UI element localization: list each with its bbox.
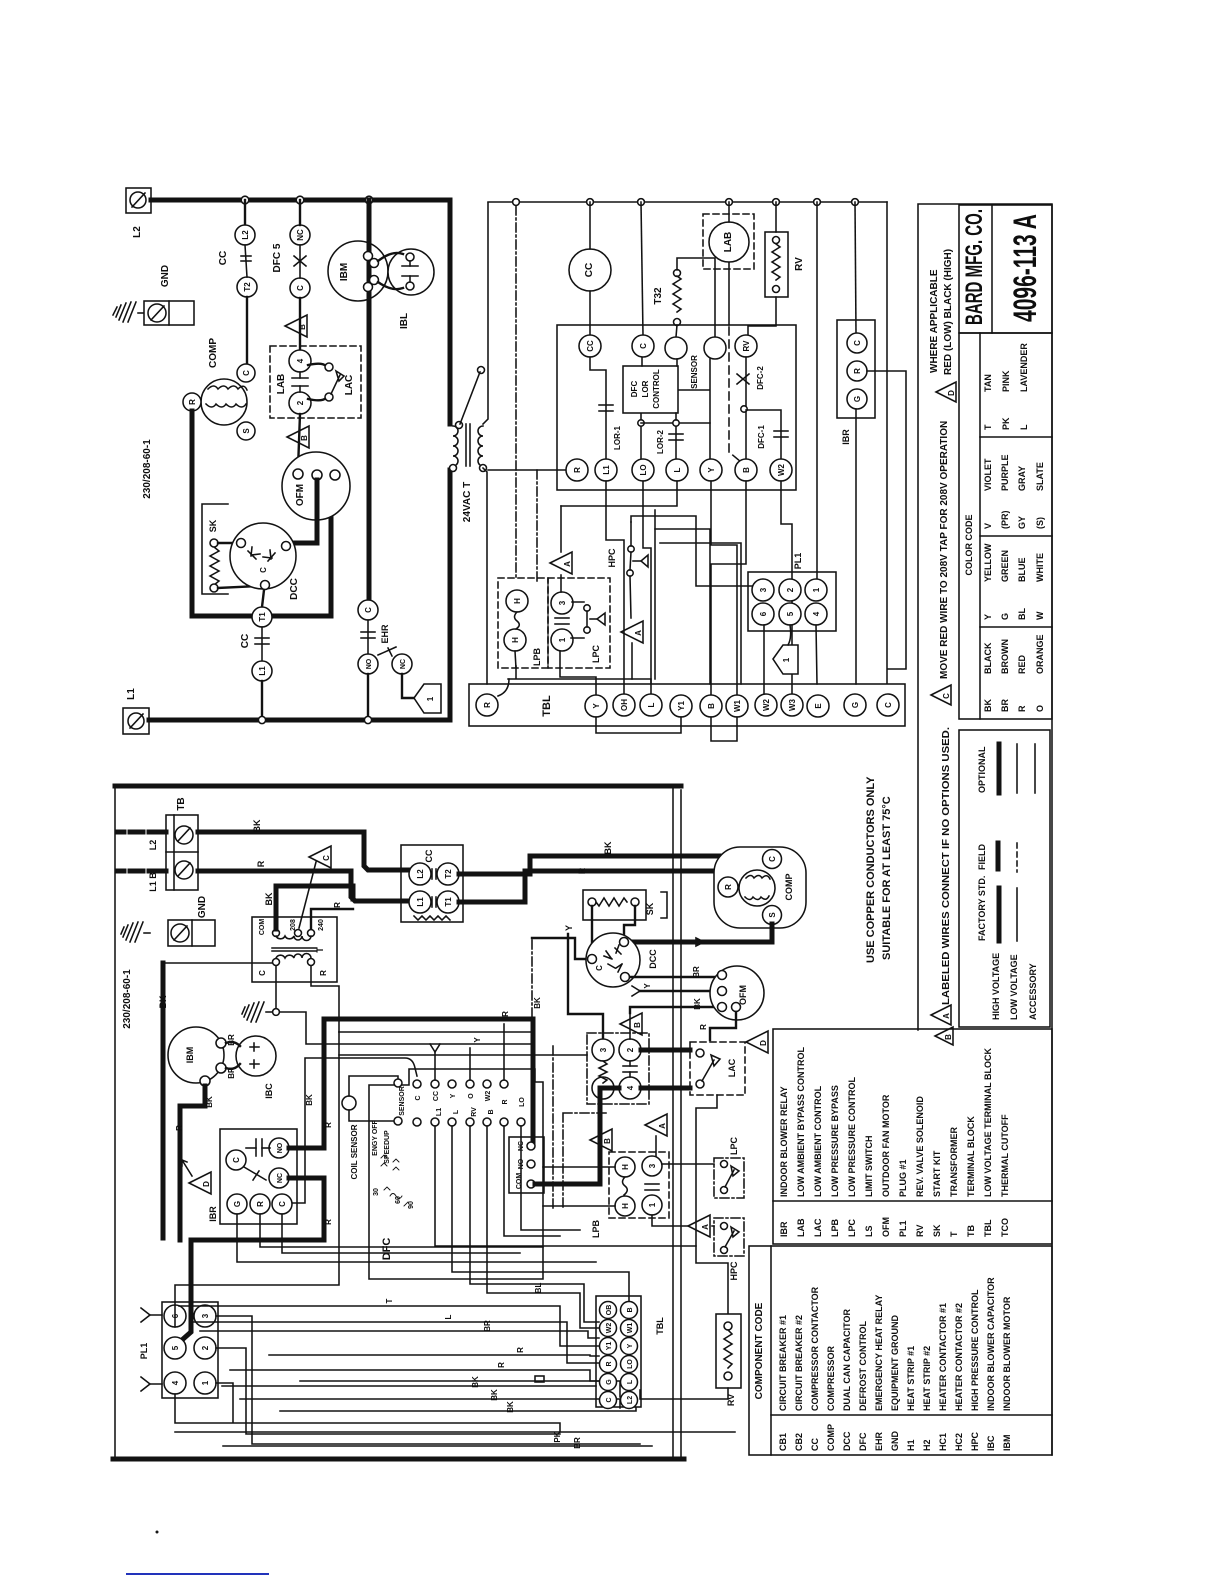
svg-text:T1: T1 — [444, 897, 453, 907]
svg-text:EQUIPMENT GROUND: EQUIPMENT GROUND — [890, 1314, 900, 1411]
wire OFM2 to DCC — [291, 480, 317, 543]
wire main bus vertical thick — [672, 786, 674, 1459]
wire left bus BK — [161, 963, 166, 1238]
resistor T32 — [673, 270, 681, 326]
svg-text:LOW VOLTAGE TERMINAL BLOCK: LOW VOLTAGE TERMINAL BLOCK — [983, 1048, 993, 1197]
sensor coil circle — [342, 1096, 356, 1110]
svg-text:A: A — [563, 561, 572, 567]
svg-text:A: A — [701, 1224, 710, 1230]
wire LPC3 up — [560, 575, 562, 592]
wire SK to DCC H — [218, 542, 237, 544]
svg-text:LAB: LAB — [723, 232, 734, 253]
svg-text:COM: COM — [259, 919, 266, 936]
resistor SK2 — [588, 898, 639, 906]
table COMPONENT CODE group B box — [773, 1029, 1052, 1244]
svg-text:IBM: IBM — [1002, 1435, 1012, 1452]
svg-text:C: C — [232, 1157, 241, 1163]
svg-text:LAC: LAC — [727, 1058, 737, 1077]
wire Y dash connector — [430, 1044, 440, 1080]
wire W2 board to W3 — [781, 481, 792, 694]
wire sensor2 to control box — [679, 359, 710, 459]
wire bundle PK — [175, 1431, 735, 1433]
wire DFC5 contact with switch — [294, 245, 306, 278]
wire L2 bus — [151, 200, 450, 424]
wire NC up — [299, 200, 301, 225]
svg-text:HEATER CONTACTOR #2: HEATER CONTACTOR #2 — [954, 1303, 964, 1411]
svg-text:LOW AMBIENT CONTROL: LOW AMBIENT CONTROL — [813, 1085, 823, 1197]
svg-text:R: R — [1017, 705, 1027, 712]
table divider A codes — [771, 1414, 1052, 1416]
svg-text:Y: Y — [627, 1343, 634, 1348]
svg-text:GY: GY — [1017, 516, 1027, 529]
svg-text:A: A — [658, 1123, 667, 1129]
wire Y from DCC C — [532, 938, 588, 959]
svg-text:OFM: OFM — [295, 484, 306, 506]
dashed box LAB coil — [703, 214, 754, 269]
svg-text:4: 4 — [171, 1380, 180, 1385]
wire R tap — [311, 909, 353, 929]
svg-text:208: 208 — [290, 919, 297, 931]
svg-text:BK: BK — [490, 1389, 499, 1401]
wire ODT4 to LAC — [641, 1086, 690, 1091]
svg-text:IBM: IBM — [339, 263, 350, 281]
wire field L2 dashes — [118, 830, 166, 835]
terminal RV board — [735, 335, 757, 357]
svg-text:IBR: IBR — [779, 1221, 789, 1237]
svg-text:OFM: OFM — [881, 1217, 891, 1237]
wire bus to PL1-1 — [816, 202, 818, 579]
wire bus right corner to TBL C — [886, 202, 888, 683]
svg-text:COMP: COMP — [784, 874, 794, 901]
svg-text:LOW PRESSURE BYPASS: LOW PRESSURE BYPASS — [830, 1085, 840, 1197]
legend sample lines — [997, 888, 1002, 941]
svg-text:LABELED WIRES CONNECT IF NO OP: LABELED WIRES CONNECT IF NO OPTIONS USED… — [941, 727, 952, 1005]
warning triangle A note — [931, 1005, 951, 1025]
svg-text:L: L — [627, 1379, 634, 1384]
svg-text:HEAT STRIP #1: HEAT STRIP #1 — [906, 1346, 916, 1411]
svg-text:COIL SENSOR: COIL SENSOR — [350, 1124, 359, 1179]
svg-text:L1: L1 — [602, 465, 611, 475]
wire PL1-4 to E — [816, 625, 817, 684]
wire DCC to T1 — [262, 590, 264, 607]
wire bottom bus — [113, 1457, 684, 1462]
pen mark blue line — [126, 1573, 269, 1575]
terminal C board — [632, 335, 654, 357]
terminal NO dfc — [527, 1160, 535, 1168]
svg-text:24VAC T: 24VAC T — [462, 482, 473, 522]
svg-text:R: R — [333, 902, 342, 908]
dashed box LPB2 — [609, 1152, 669, 1218]
wire SK2 stubs — [592, 906, 635, 954]
svg-text:DCC: DCC — [842, 1431, 852, 1451]
svg-text:B: B — [300, 435, 309, 441]
ground symbol3 — [242, 1002, 272, 1022]
svg-text:SK: SK — [645, 902, 655, 915]
svg-text:TERMINAL BLOCK: TERMINAL BLOCK — [966, 1116, 976, 1197]
node junction3 — [365, 196, 373, 204]
wire staircase HPC to PL1-3 — [631, 516, 753, 586]
warning triangle B note — [935, 1027, 953, 1045]
box LPC2 dash-dot — [714, 1158, 744, 1198]
wire bundle T — [179, 1306, 599, 1346]
svg-text:GRAY: GRAY — [1017, 466, 1027, 491]
wire Y path from S branch — [568, 934, 603, 1039]
node dot2 — [741, 406, 747, 412]
pins speedup — [381, 1155, 399, 1170]
svg-text:ENGY OFF: ENGY OFF — [372, 1119, 379, 1155]
capacitor symbol LAB — [292, 372, 308, 392]
svg-text:R: R — [516, 1347, 525, 1353]
svg-text:R: R — [501, 1011, 510, 1017]
arrow Y lower — [141, 1377, 162, 1391]
svg-text:R: R — [724, 884, 733, 890]
wire SK to DCC C — [218, 586, 258, 588]
svg-text:H: H — [621, 1203, 630, 1209]
svg-text:R: R — [853, 368, 862, 374]
svg-text:LOR-2: LOR-2 — [656, 429, 665, 454]
svg-text:CC: CC — [584, 263, 595, 277]
svg-text:L: L — [647, 702, 656, 707]
fuse L1 — [123, 708, 149, 734]
svg-text:G: G — [851, 702, 860, 708]
svg-text:RV: RV — [742, 340, 751, 352]
terminal COMP S — [237, 422, 255, 440]
svg-text:DCC: DCC — [648, 949, 658, 969]
rows group A codes and descriptions — [778, 1277, 1012, 1451]
svg-text:C: C — [242, 370, 251, 376]
contact LPB2 H2 — [615, 1196, 635, 1216]
wire bus to C board — [641, 202, 643, 335]
terminal Y board — [700, 459, 722, 481]
svg-text:GND: GND — [197, 896, 208, 918]
svg-text:(PR): (PR) — [1000, 511, 1010, 530]
contact CCb T1 — [437, 891, 459, 913]
svg-text:LOR: LOR — [641, 380, 650, 397]
svg-text:H: H — [511, 637, 520, 643]
svg-text:COLOR CODE: COLOR CODE — [964, 514, 974, 575]
wire bundle L — [191, 1322, 599, 1363]
wire IBR2 NO to DFC NC — [289, 1019, 533, 1148]
svg-text:TCO: TCO — [1000, 1218, 1010, 1237]
wire L board to LPC — [561, 481, 677, 506]
svg-text:A: A — [634, 630, 643, 636]
capacitor symbol LPC — [555, 618, 569, 624]
svg-text:5: 5 — [171, 1345, 180, 1350]
svg-text:2: 2 — [626, 1047, 635, 1052]
svg-text:EHR: EHR — [380, 624, 390, 644]
pin PL2-6 — [164, 1305, 186, 1327]
rows group B codes and descriptions — [779, 1047, 1010, 1237]
wire BK to board C — [293, 1058, 417, 1203]
terminal R board — [566, 459, 588, 481]
pin PL2-3 — [194, 1305, 216, 1327]
wire bus to IBM — [367, 200, 372, 241]
svg-text:1: 1 — [426, 696, 435, 701]
wire bundle BR — [200, 1331, 599, 1338]
dashed box LPB — [498, 578, 548, 668]
svg-text:B: B — [603, 1138, 612, 1144]
svg-text:T: T — [949, 1231, 959, 1237]
svg-text:2: 2 — [786, 587, 795, 592]
svg-text:1: 1 — [558, 637, 567, 642]
svg-text:RED: RED — [1017, 654, 1027, 674]
svg-text:GND: GND — [890, 1431, 900, 1452]
svg-text:YELLOW: YELLOW — [983, 543, 993, 582]
wire field L1 dashes — [118, 869, 166, 874]
svg-text:CC: CC — [424, 849, 434, 862]
svg-text:OFM: OFM — [738, 985, 748, 1005]
svg-text:LOW AMBIENT BYPASS CONTROL: LOW AMBIENT BYPASS CONTROL — [796, 1047, 806, 1197]
svg-text:ORANGE: ORANGE — [1035, 634, 1045, 674]
wire sensor1 to control box — [676, 359, 678, 366]
capacitor DCC2 — [586, 933, 640, 987]
wire RV to board — [748, 297, 776, 335]
svg-text:Y1: Y1 — [606, 1342, 613, 1351]
terminal sensor2 board — [704, 337, 726, 359]
svg-text:R: R — [502, 1099, 509, 1104]
svg-text:B: B — [488, 1109, 495, 1114]
svg-text:PK: PK — [1001, 417, 1011, 430]
warning triangle C note — [931, 685, 951, 705]
wire RV2 bottom — [640, 1388, 728, 1399]
svg-text:3: 3 — [599, 1047, 608, 1052]
svg-text:R: R — [256, 860, 266, 867]
contact ODT 1 — [592, 1077, 614, 1099]
contact IBR2 NO — [269, 1138, 289, 1158]
wire L1 bus bottom — [149, 470, 450, 720]
svg-text:PURPLE: PURPLE — [1000, 454, 1010, 491]
wire LAC to RV chain — [696, 1095, 728, 1314]
svg-text:LOR-1: LOR-1 — [613, 425, 622, 450]
svg-text:R: R — [497, 1362, 506, 1368]
wire RV to B with contact DFC-2 — [737, 357, 749, 459]
wire IBM to EHR — [367, 302, 372, 600]
wire BK from TB — [198, 832, 408, 870]
warning triangle A4 — [688, 1215, 710, 1237]
svg-text:L2: L2 — [627, 1396, 634, 1404]
svg-text:BK: BK — [471, 1376, 480, 1388]
svg-text:COM: COM — [516, 1173, 523, 1190]
svg-text:LPB: LPB — [532, 647, 542, 666]
terminal COMP2 C — [763, 850, 782, 869]
terminal LO board — [632, 459, 654, 481]
svg-text:DFC-1: DFC-1 — [757, 425, 766, 449]
terminal COM dfc — [527, 1180, 535, 1188]
wire ODT2 up — [629, 1013, 631, 1039]
svg-text:H: H — [621, 1164, 630, 1170]
svg-text:W2: W2 — [606, 1323, 613, 1334]
terminal strip TBL — [469, 684, 905, 726]
switch HPC2 — [721, 1223, 740, 1254]
contact LPC 3 — [551, 592, 573, 614]
svg-text:V: V — [983, 523, 993, 529]
svg-text:CC: CC — [240, 634, 251, 648]
wire IBR2 C run — [282, 1214, 520, 1253]
svg-text:W1: W1 — [733, 699, 742, 712]
svg-text:DUAL CAN CAPACITOR: DUAL CAN CAPACITOR — [842, 1308, 852, 1411]
svg-text:BARD MFG. CO.: BARD MFG. CO. — [961, 209, 988, 325]
wire Y board to W1 — [711, 481, 737, 696]
svg-text:BK: BK — [603, 841, 613, 854]
wire HPC up — [630, 522, 632, 546]
title block BARD MFG. CO. — [959, 205, 1052, 333]
svg-text:WHERE APPLICABLE: WHERE APPLICABLE — [929, 269, 940, 373]
relay IBR box — [837, 320, 875, 418]
wire bundle v339 — [175, 1032, 339, 1327]
svg-text:C: C — [258, 970, 267, 976]
svg-text:T32: T32 — [653, 287, 664, 305]
svg-text:L2: L2 — [132, 226, 143, 238]
svg-text:BR: BR — [227, 1034, 236, 1046]
wire A2 down — [631, 643, 633, 679]
svg-text:O: O — [468, 1093, 475, 1099]
svg-text:BR: BR — [1000, 699, 1010, 712]
svg-text:R: R — [577, 867, 587, 874]
svg-text:C: C — [595, 965, 604, 971]
svg-text:T: T — [315, 947, 325, 953]
wire link B to W1 — [711, 717, 737, 741]
svg-text:BK: BK — [506, 1401, 515, 1413]
svg-text:2: 2 — [296, 400, 305, 405]
svg-text:R: R — [256, 1201, 265, 1207]
solenoid RV — [765, 232, 788, 297]
svg-text:4: 4 — [296, 358, 305, 363]
svg-text:H: H — [513, 598, 522, 604]
contact LPB2 1 — [642, 1195, 662, 1215]
wire R board stub — [503, 1024, 505, 1080]
wire LPC1 to TBL Y — [560, 649, 596, 696]
svg-text:INDOOR BLOWER RELAY: INDOOR BLOWER RELAY — [779, 1086, 789, 1197]
wire top bus bottom section — [115, 784, 681, 789]
label O bundle — [535, 1376, 544, 1382]
terminal COMP2 R — [718, 877, 738, 897]
box LAC2 dashed — [690, 1042, 745, 1095]
wire A1 up — [560, 506, 562, 552]
svg-text:L1: L1 — [416, 897, 425, 907]
wire bus to CC coil — [589, 202, 591, 249]
warning triangle D3 — [182, 1160, 211, 1194]
svg-text:BK: BK — [264, 892, 274, 905]
switch HPC — [627, 546, 648, 576]
box DFC LOR CONTROL — [623, 366, 678, 413]
svg-text:NC: NC — [296, 229, 305, 241]
svg-text:H2: H2 — [922, 1439, 932, 1451]
wire staircase to TBL B — [655, 529, 710, 684]
coil CCb — [414, 916, 450, 920]
wire IBR R to TBL C — [867, 371, 906, 669]
wire LAB dashed inside board — [729, 327, 741, 462]
svg-text:T: T — [385, 1298, 394, 1303]
table divider A header — [770, 1246, 772, 1455]
svg-text:TB: TB — [966, 1225, 976, 1237]
contact LAB 4 — [289, 350, 311, 372]
wire left border — [114, 786, 116, 1459]
wire T2 to comp — [246, 297, 248, 364]
table COLOR CODE — [959, 333, 1052, 719]
wire T R down — [311, 966, 339, 1032]
wire secondary to R — [483, 468, 487, 684]
svg-text:COMPRESSOR CONTACTOR: COMPRESSOR CONTACTOR — [810, 1286, 820, 1411]
svg-text:HIGH PRESSURE CONTROL: HIGH PRESSURE CONTROL — [970, 1289, 980, 1411]
wire boundary dash-dot b2 — [553, 1046, 609, 1210]
arrow Y upper — [141, 1308, 162, 1322]
wire T32 top — [677, 258, 715, 337]
svg-text:LO: LO — [627, 1359, 634, 1369]
svg-text:T2: T2 — [444, 869, 453, 879]
svg-text:CC: CC — [433, 1091, 440, 1101]
svg-text:RV: RV — [794, 257, 805, 271]
wire IBR2 G run — [237, 1214, 596, 1262]
contact IBR2 C2 — [272, 1194, 292, 1214]
wire board run1 — [435, 1126, 696, 1246]
svg-text:3: 3 — [648, 1163, 657, 1168]
table divider B codes — [773, 1200, 1052, 1202]
wire CCb T2 to COMP C — [459, 856, 764, 874]
relay EHR NC — [392, 654, 412, 674]
wire board run5 — [504, 1126, 560, 1236]
wire NC to tag — [402, 674, 414, 698]
svg-text:Y: Y — [983, 614, 993, 620]
ground GND — [113, 302, 144, 322]
svg-text:PL1: PL1 — [793, 553, 803, 570]
wire IBM BK down — [180, 1086, 205, 1240]
svg-text:S: S — [768, 912, 777, 918]
contact IBR R — [847, 361, 867, 381]
terminal TBL C — [877, 694, 899, 716]
svg-text:D: D — [759, 1040, 768, 1046]
contact ODT 4 — [619, 1077, 641, 1099]
svg-text:DFC 5: DFC 5 — [272, 243, 283, 272]
svg-text:G: G — [853, 396, 862, 402]
terminal COMP C — [237, 364, 255, 382]
wire run 1032 — [339, 1031, 533, 1033]
svg-text:ACCESSORY: ACCESSORY — [1028, 963, 1038, 1020]
terminal NC dfc — [527, 1142, 535, 1150]
wire H2 left — [543, 1205, 615, 1207]
svg-text:HPC: HPC — [970, 1431, 980, 1451]
connector PL1 box — [748, 572, 836, 631]
svg-text:B: B — [633, 1022, 642, 1028]
svg-text:G: G — [1000, 613, 1010, 620]
svg-text:EHR: EHR — [874, 1431, 884, 1451]
wire OFM R down — [710, 1012, 736, 1040]
svg-text:L2: L2 — [148, 840, 158, 851]
svg-text:COMPONENT CODE: COMPONENT CODE — [754, 1302, 765, 1399]
board DFC2 outline — [369, 1069, 543, 1279]
terminal TBL W3 — [781, 694, 803, 716]
svg-text:SENSOR: SENSOR — [690, 355, 699, 389]
svg-text:B: B — [742, 467, 751, 473]
wire LV bus — [488, 201, 887, 203]
wire C to control box — [641, 358, 643, 366]
svg-text:C: C — [296, 285, 305, 291]
svg-text:W2: W2 — [777, 463, 786, 476]
pin PL1-5 — [779, 603, 801, 625]
svg-text:C: C — [768, 856, 777, 862]
contact LAB 2 — [289, 392, 311, 414]
svg-text:EMERGENCY HEAT RELAY: EMERGENCY HEAT RELAY — [874, 1295, 884, 1411]
wire CC coil to board — [589, 291, 591, 335]
svg-text:IBC: IBC — [986, 1435, 996, 1451]
svg-text:R: R — [606, 1361, 613, 1366]
svg-text:TBL: TBL — [983, 1219, 993, 1237]
svg-text:W: W — [1035, 611, 1045, 620]
svg-text:HEATER CONTACTOR #1: HEATER CONTACTOR #1 — [938, 1303, 948, 1411]
svg-text:BL: BL — [534, 1283, 543, 1294]
wire boundary dash-dot b1 — [531, 940, 533, 1046]
terminal CC board — [579, 335, 601, 357]
svg-text:FACTORY STD.: FACTORY STD. — [977, 876, 987, 941]
